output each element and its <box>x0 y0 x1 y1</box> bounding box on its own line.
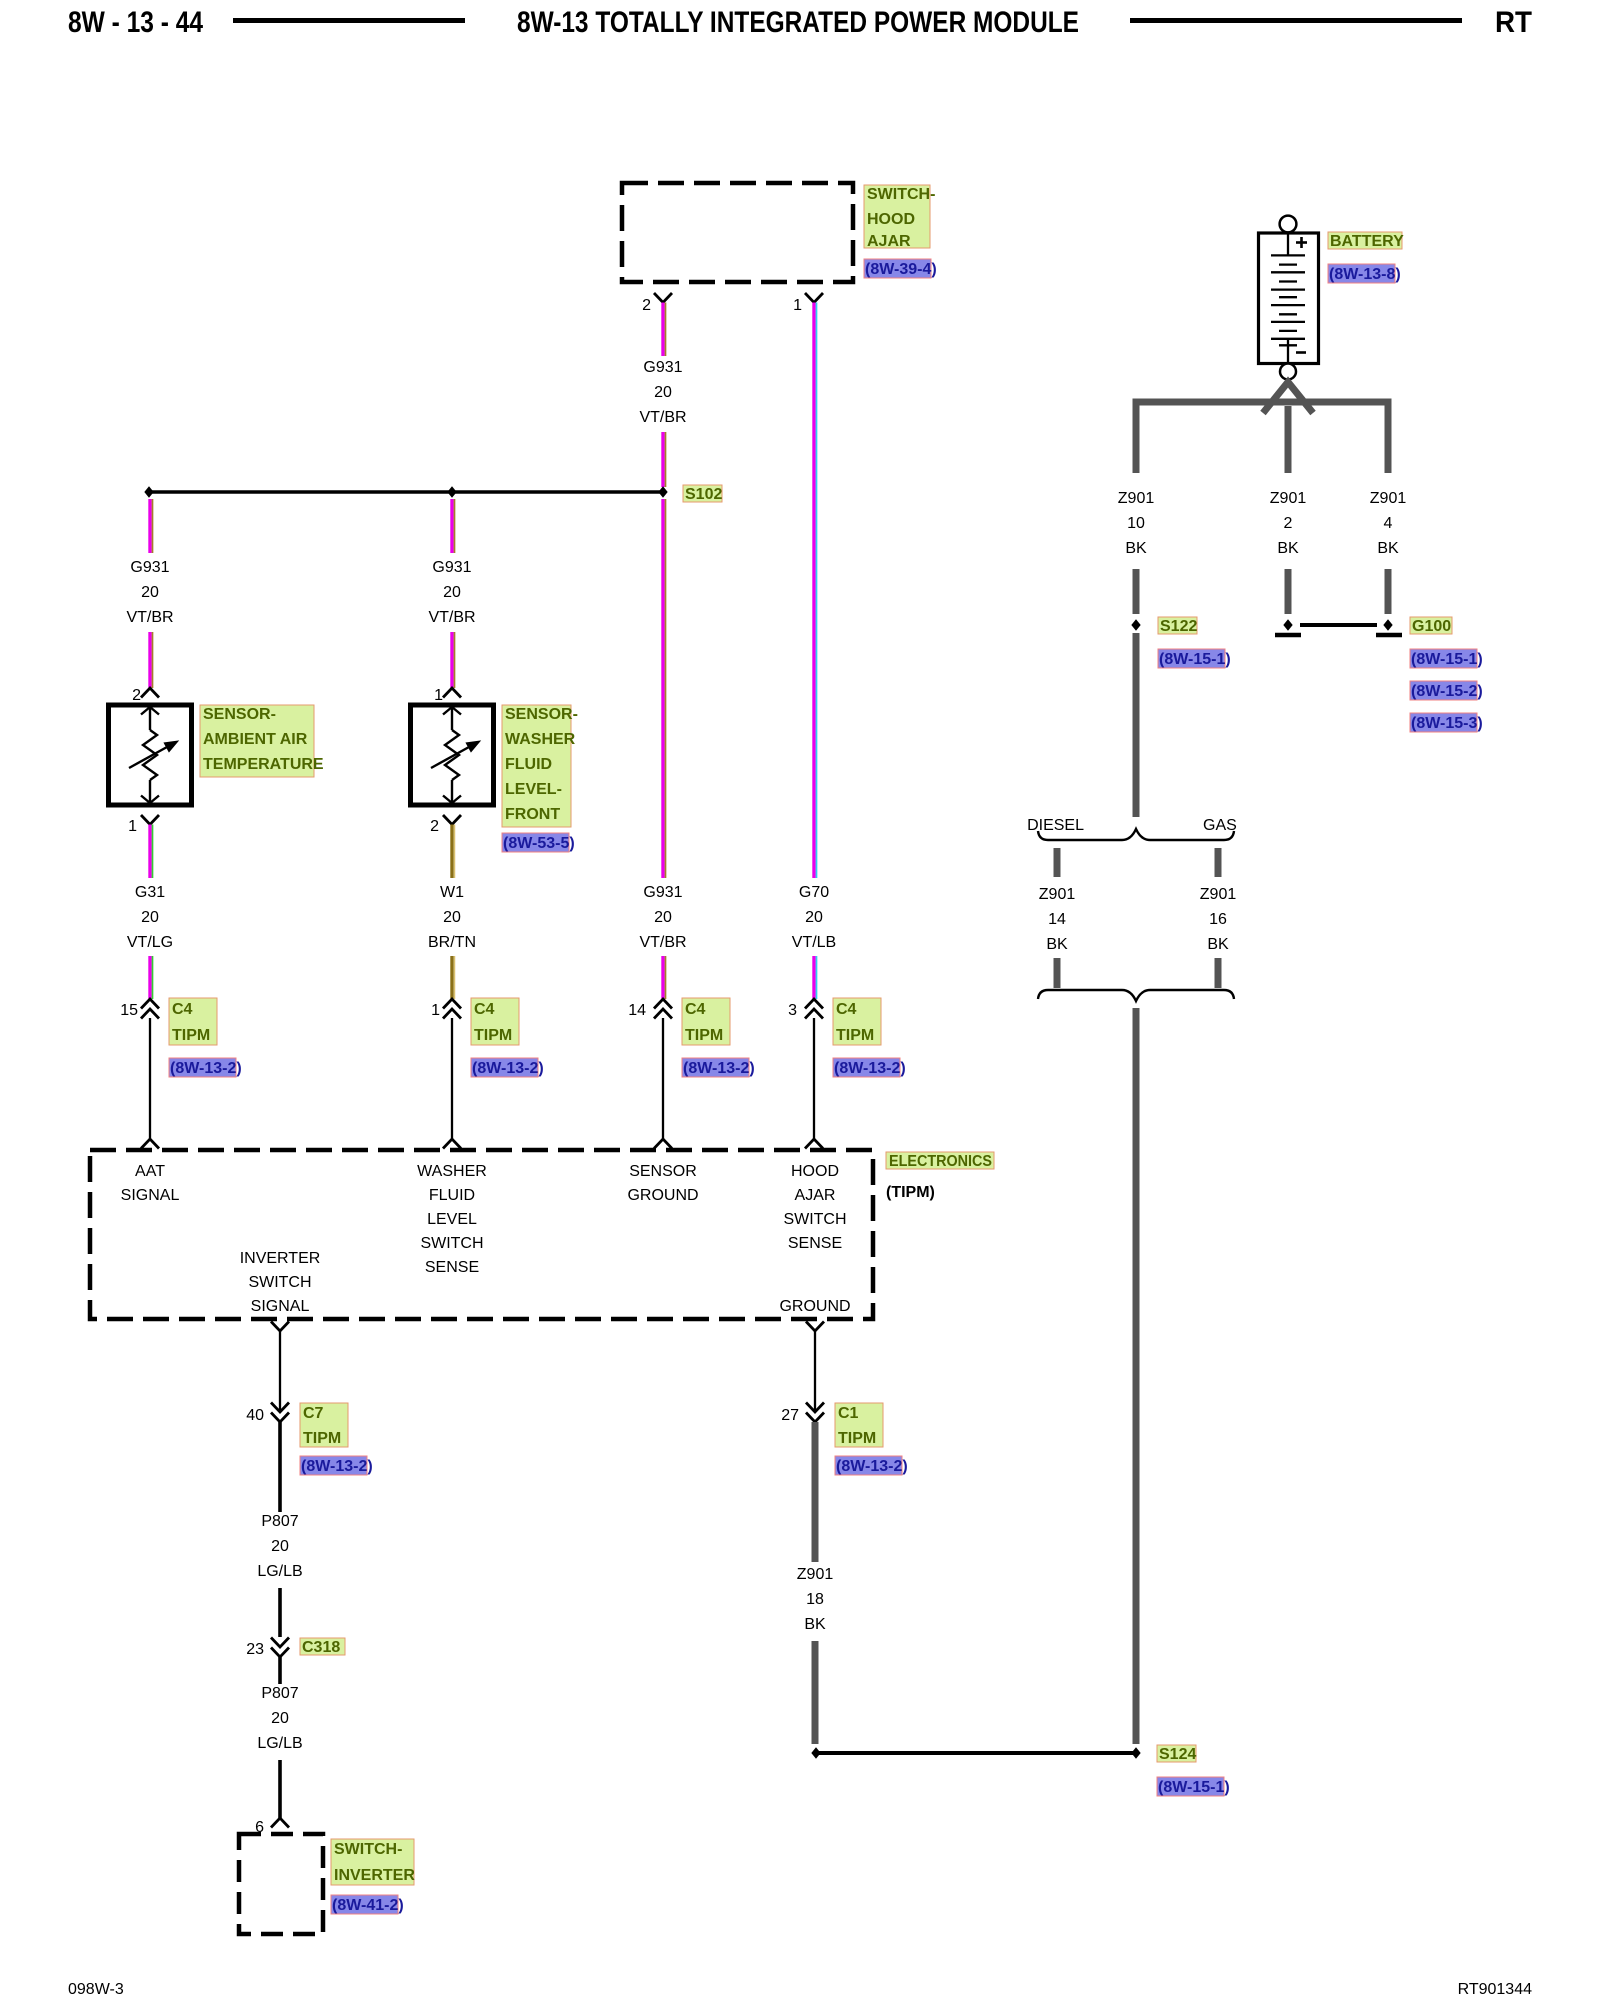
svg-text:(8W-15-2): (8W-15-2) <box>1411 683 1483 700</box>
svg-text:BK: BK <box>1377 540 1399 557</box>
svg-text:2: 2 <box>642 297 651 314</box>
svg-text:SENSE: SENSE <box>425 1259 479 1276</box>
svg-text:(8W-53-5): (8W-53-5) <box>503 835 575 852</box>
svg-text:C1: C1 <box>838 1405 859 1422</box>
svg-text:TIPM: TIPM <box>836 1027 874 1044</box>
svg-text:AMBIENT AIR: AMBIENT AIR <box>203 731 308 748</box>
svg-text:AJAR: AJAR <box>795 1187 836 1204</box>
svg-text:SWITCH: SWITCH <box>420 1235 483 1252</box>
svg-text:20: 20 <box>271 1538 289 1555</box>
svg-text:16: 16 <box>1209 911 1227 928</box>
svg-text:RT901344: RT901344 <box>1458 1981 1533 1998</box>
svg-text:2: 2 <box>430 818 439 835</box>
svg-text:P807: P807 <box>261 1685 298 1702</box>
svg-text:G931: G931 <box>643 359 682 376</box>
svg-text:20: 20 <box>654 909 672 926</box>
svg-text:BATTERY: BATTERY <box>1330 233 1404 250</box>
svg-text:GAS: GAS <box>1203 817 1237 834</box>
svg-text:8W - 13 - 44: 8W - 13 - 44 <box>68 6 203 39</box>
svg-text:(8W-15-1): (8W-15-1) <box>1158 1779 1230 1796</box>
svg-text:TIPM: TIPM <box>838 1430 876 1447</box>
svg-text:20: 20 <box>654 384 672 401</box>
svg-text:(8W-13-2): (8W-13-2) <box>834 1060 906 1077</box>
svg-text:(8W-13-8): (8W-13-8) <box>1329 266 1401 283</box>
svg-text:40: 40 <box>246 1407 264 1424</box>
svg-text:3: 3 <box>788 1002 797 1019</box>
svg-text:15: 15 <box>120 1002 138 1019</box>
svg-text:G31: G31 <box>135 884 165 901</box>
svg-text:AAT: AAT <box>135 1163 165 1180</box>
svg-text:BK: BK <box>1125 540 1147 557</box>
svg-text:SENSOR: SENSOR <box>629 1163 697 1180</box>
svg-text:BK: BK <box>1277 540 1299 557</box>
svg-text:SIGNAL: SIGNAL <box>251 1298 310 1315</box>
svg-text:GROUND: GROUND <box>779 1298 850 1315</box>
svg-text:FRONT: FRONT <box>505 806 560 823</box>
svg-text:098W-3: 098W-3 <box>68 1981 124 1998</box>
svg-text:TIPM: TIPM <box>474 1027 512 1044</box>
svg-text:DIESEL: DIESEL <box>1027 817 1084 834</box>
svg-text:(8W-39-4): (8W-39-4) <box>865 261 937 278</box>
svg-text:LEVEL: LEVEL <box>427 1211 477 1228</box>
svg-text:(TIPM): (TIPM) <box>886 1184 935 1201</box>
svg-text:TIPM: TIPM <box>172 1027 210 1044</box>
svg-text:HOOD: HOOD <box>791 1163 839 1180</box>
svg-text:G931: G931 <box>130 559 169 576</box>
svg-text:G70: G70 <box>799 884 829 901</box>
svg-text:GROUND: GROUND <box>627 1187 698 1204</box>
svg-text:2: 2 <box>1284 515 1293 532</box>
svg-text:LG/LB: LG/LB <box>257 1563 302 1580</box>
svg-text:C4: C4 <box>836 1001 857 1018</box>
svg-text:(8W-15-3): (8W-15-3) <box>1411 715 1483 732</box>
svg-text:BK: BK <box>1046 936 1068 953</box>
svg-text:SENSOR-: SENSOR- <box>203 706 276 723</box>
svg-text:20: 20 <box>443 909 461 926</box>
svg-text:14: 14 <box>628 1002 646 1019</box>
svg-text:C4: C4 <box>474 1001 495 1018</box>
svg-text:VT/BR: VT/BR <box>639 934 686 951</box>
svg-text:(8W-13-2): (8W-13-2) <box>301 1458 373 1475</box>
svg-text:20: 20 <box>443 584 461 601</box>
svg-text:C4: C4 <box>685 1001 706 1018</box>
svg-text:BK: BK <box>804 1616 826 1633</box>
svg-text:10: 10 <box>1127 515 1145 532</box>
svg-text:TIPM: TIPM <box>303 1430 341 1447</box>
svg-text:P807: P807 <box>261 1513 298 1530</box>
svg-text:Z901: Z901 <box>1039 886 1076 903</box>
svg-text:SWITCH-: SWITCH- <box>867 186 935 203</box>
svg-text:Z901: Z901 <box>1200 886 1237 903</box>
svg-text:20: 20 <box>141 909 159 926</box>
svg-text:C4: C4 <box>172 1001 193 1018</box>
svg-text:23: 23 <box>246 1641 264 1658</box>
svg-text:Z901: Z901 <box>797 1566 834 1583</box>
svg-text:(8W-13-2): (8W-13-2) <box>472 1060 544 1077</box>
svg-text:BK: BK <box>1207 936 1229 953</box>
svg-text:C7: C7 <box>303 1405 324 1422</box>
svg-text:1: 1 <box>793 297 802 314</box>
svg-text:SENSE: SENSE <box>788 1235 842 1252</box>
svg-text:27: 27 <box>781 1407 799 1424</box>
svg-text:LEVEL-: LEVEL- <box>505 781 562 798</box>
svg-text:8W-13 TOTALLY INTEGRATED POWER: 8W-13 TOTALLY INTEGRATED POWER MODULE <box>517 6 1079 39</box>
svg-text:1: 1 <box>128 818 137 835</box>
svg-text:VT/LG: VT/LG <box>127 934 173 951</box>
svg-text:Z901: Z901 <box>1270 490 1307 507</box>
svg-text:W1: W1 <box>440 884 464 901</box>
svg-text:WASHER: WASHER <box>417 1163 487 1180</box>
svg-text:INVERTER: INVERTER <box>334 1867 415 1884</box>
svg-text:ELECTRONICS: ELECTRONICS <box>889 1153 992 1170</box>
svg-text:(8W-13-2): (8W-13-2) <box>170 1060 242 1077</box>
svg-text:TIPM: TIPM <box>685 1027 723 1044</box>
svg-text:WASHER: WASHER <box>505 731 576 748</box>
svg-text:2: 2 <box>132 687 141 704</box>
svg-text:VT/BR: VT/BR <box>126 609 173 626</box>
svg-text:G931: G931 <box>643 884 682 901</box>
svg-text:G931: G931 <box>432 559 471 576</box>
svg-text:20: 20 <box>271 1710 289 1727</box>
svg-text:VT/BR: VT/BR <box>639 409 686 426</box>
svg-text:14: 14 <box>1048 911 1066 928</box>
svg-text:(8W-15-1): (8W-15-1) <box>1411 651 1483 668</box>
svg-text:RT: RT <box>1495 6 1532 39</box>
svg-text:BR/TN: BR/TN <box>428 934 476 951</box>
svg-text:1: 1 <box>431 1002 440 1019</box>
svg-text:(8W-13-2): (8W-13-2) <box>683 1060 755 1077</box>
svg-text:18: 18 <box>806 1591 824 1608</box>
svg-text:(8W-41-2): (8W-41-2) <box>332 1897 404 1914</box>
svg-text:Z901: Z901 <box>1370 490 1407 507</box>
svg-text:SIGNAL: SIGNAL <box>121 1187 180 1204</box>
svg-text:C318: C318 <box>302 1639 340 1656</box>
svg-text:AJAR: AJAR <box>867 233 911 250</box>
svg-text:SWITCH: SWITCH <box>783 1211 846 1228</box>
svg-text:SWITCH-: SWITCH- <box>334 1841 402 1858</box>
svg-text:LG/LB: LG/LB <box>257 1735 302 1752</box>
svg-text:VT/LB: VT/LB <box>792 934 836 951</box>
svg-text:G100: G100 <box>1412 618 1451 635</box>
svg-text:HOOD: HOOD <box>867 211 915 228</box>
svg-text:20: 20 <box>141 584 159 601</box>
svg-text:S124: S124 <box>1159 1746 1196 1763</box>
svg-text:Z901: Z901 <box>1118 490 1155 507</box>
svg-text:4: 4 <box>1384 515 1393 532</box>
svg-text:FLUID: FLUID <box>429 1187 475 1204</box>
svg-text:FLUID: FLUID <box>505 756 552 773</box>
svg-text:(8W-13-2): (8W-13-2) <box>836 1458 908 1475</box>
svg-text:TEMPERATURE: TEMPERATURE <box>203 756 324 773</box>
svg-text:(8W-15-1): (8W-15-1) <box>1159 651 1231 668</box>
svg-text:INVERTER: INVERTER <box>240 1250 321 1267</box>
svg-text:20: 20 <box>805 909 823 926</box>
svg-text:SWITCH: SWITCH <box>248 1274 311 1291</box>
svg-text:SENSOR-: SENSOR- <box>505 706 578 723</box>
svg-text:1: 1 <box>434 687 443 704</box>
svg-text:S102: S102 <box>685 486 722 503</box>
svg-text:S122: S122 <box>1160 618 1197 635</box>
svg-text:VT/BR: VT/BR <box>428 609 475 626</box>
